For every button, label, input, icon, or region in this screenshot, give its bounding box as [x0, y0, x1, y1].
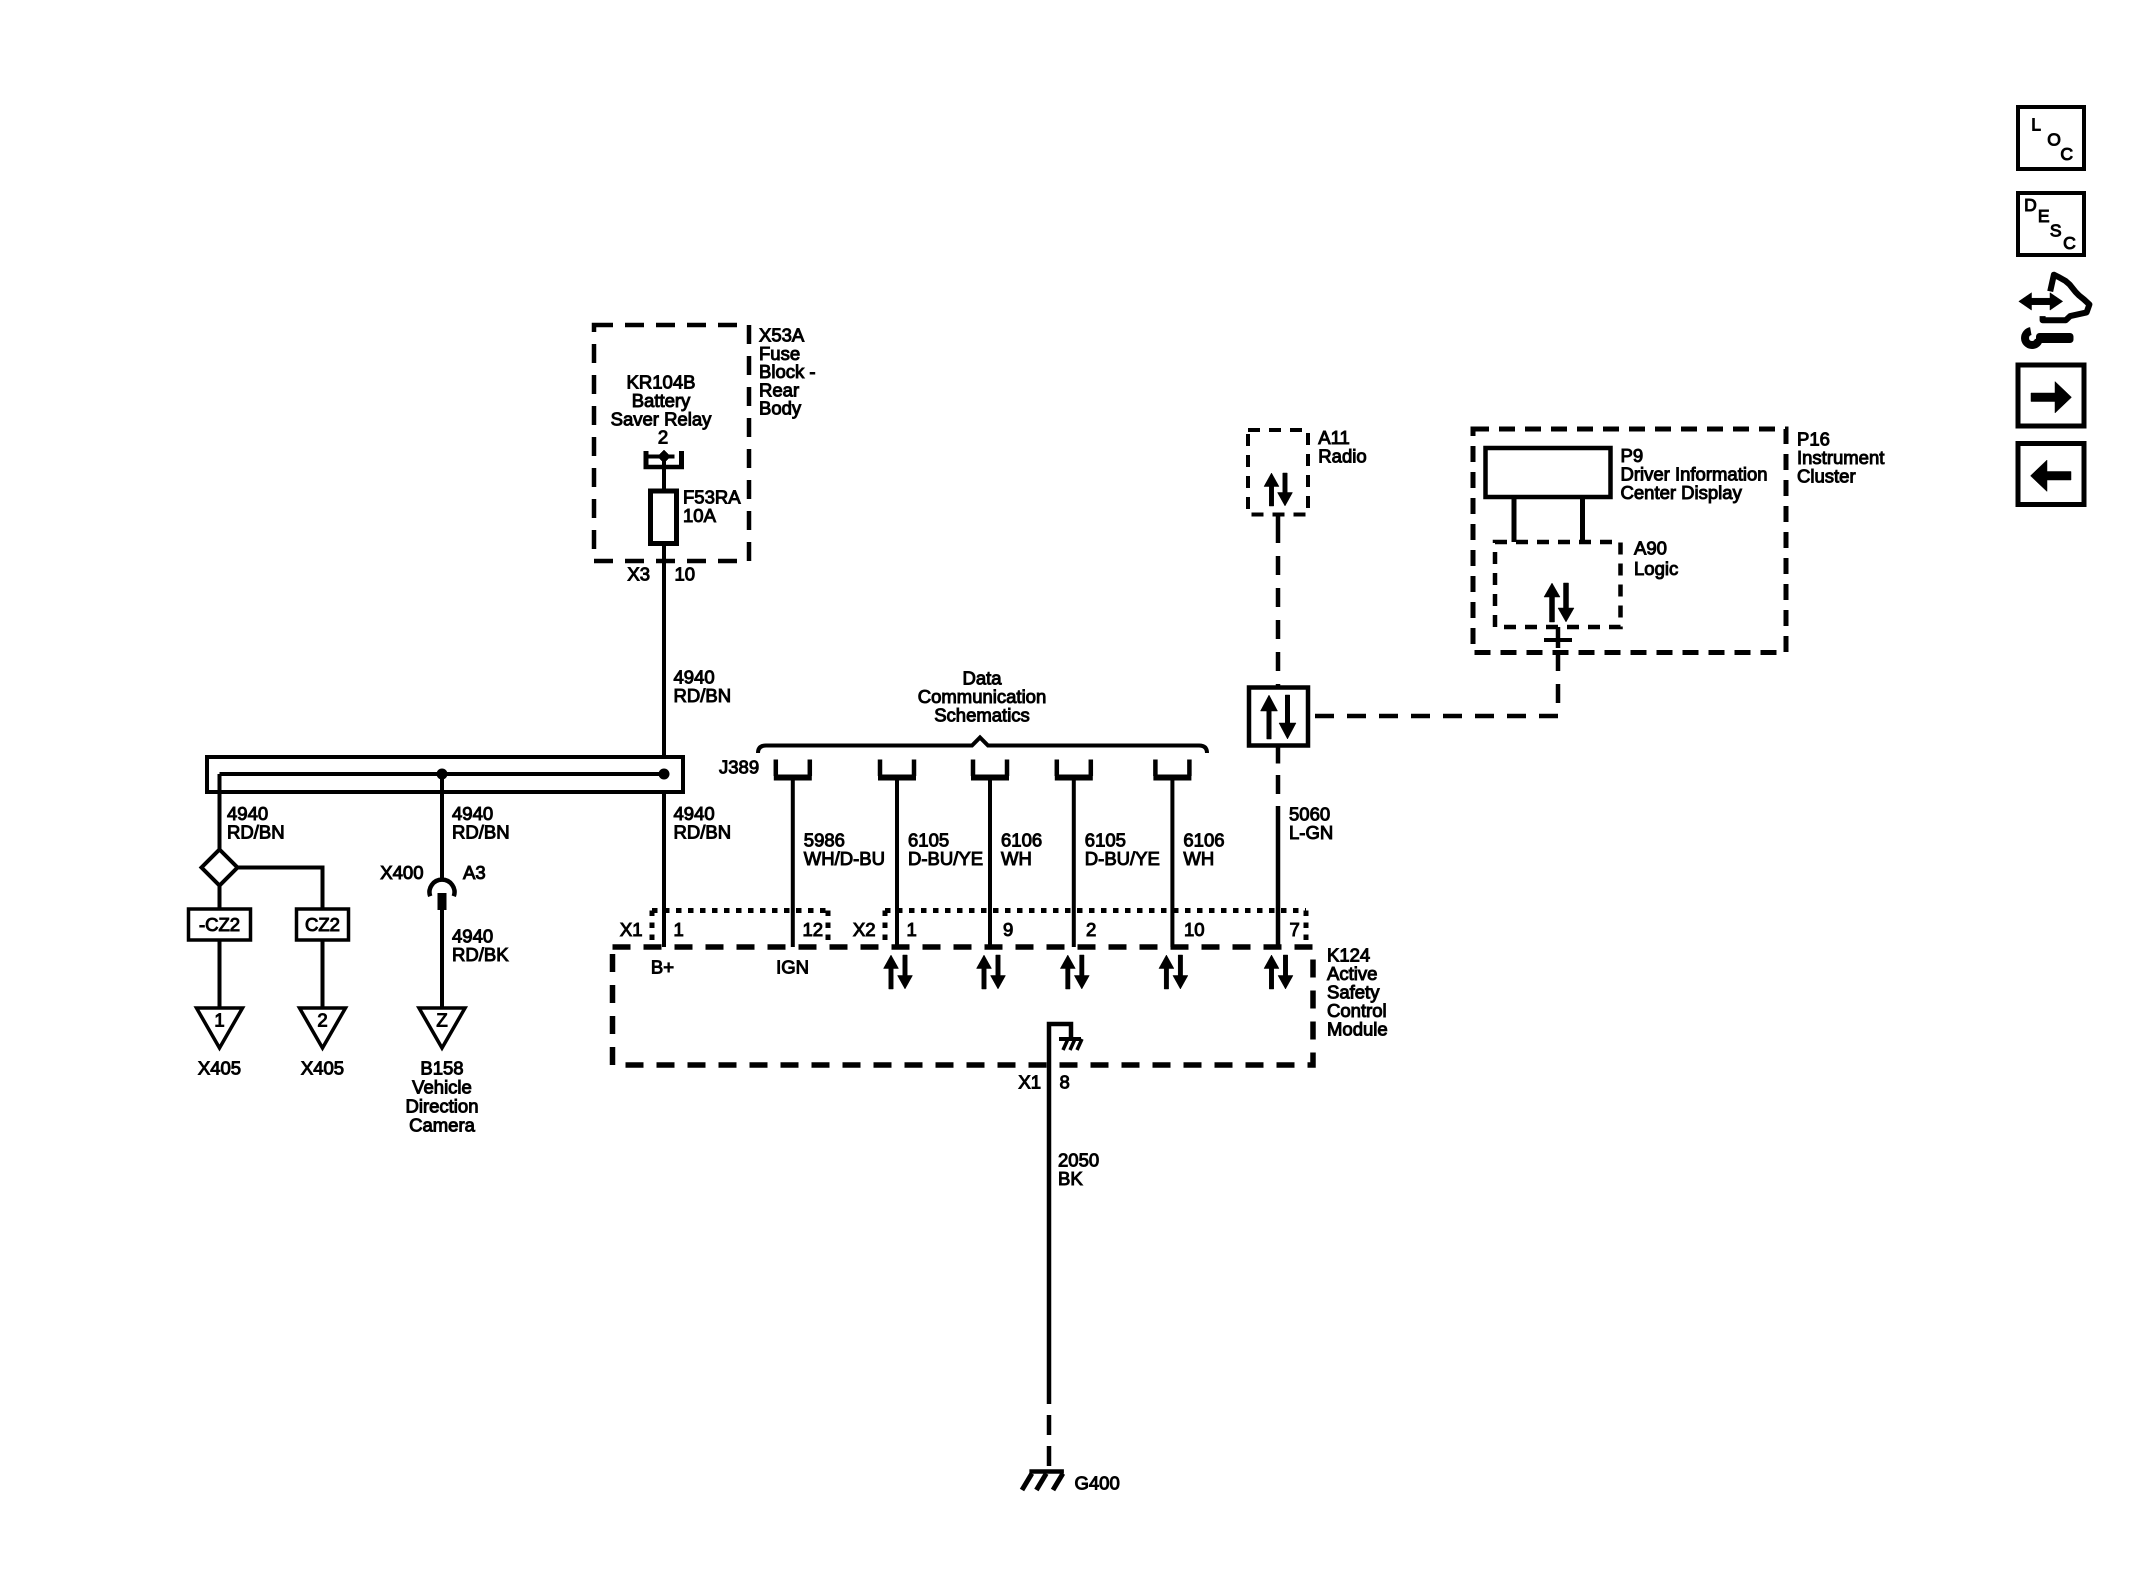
- svg-text:CZ2: CZ2: [305, 914, 340, 935]
- svg-text:WH: WH: [1183, 848, 1214, 869]
- serial data connector 1 symbol: [774, 760, 812, 778]
- svg-text:9: 9: [1003, 919, 1013, 940]
- svg-text:C: C: [2060, 144, 2073, 164]
- logic block A90 dashed box: [1495, 542, 1621, 627]
- splice diamond symbol: [202, 850, 238, 886]
- splice pack J389 body: [207, 757, 683, 792]
- label X53A Fuse Block - Rear Body: [759, 325, 816, 419]
- serial data connector 2 symbol: [878, 760, 916, 778]
- label A90 Logic: [1634, 538, 1678, 580]
- bidirectional data arrows: [1159, 955, 1188, 989]
- wire label 6105 D-BU/YE: [1085, 830, 1160, 870]
- svg-text:WH/D-BU: WH/D-BU: [804, 848, 885, 869]
- wire fuse output down through fuse block edge to splice pack and module pin X1-1: [662, 544, 666, 948]
- wire label 4940 RD/BN (module feed below splice): [674, 803, 732, 843]
- label P16 Instrument Cluster: [1797, 429, 1884, 487]
- bidirectional data arrows: [884, 955, 913, 989]
- svg-text:Z: Z: [436, 1010, 447, 1031]
- wire 6105 D-BU/YE: [1072, 780, 1076, 947]
- label P9 Driver Information Center Display: [1621, 445, 1768, 503]
- svg-text:B158: B158: [420, 1058, 463, 1079]
- svg-text:1: 1: [214, 1010, 224, 1031]
- instrument cluster P16 dashed box: [1473, 429, 1786, 653]
- svg-text:IGN: IGN: [776, 957, 809, 978]
- fuse block X53A dashed outline: [594, 325, 749, 561]
- wire label 5986 WH/D-BU: [804, 830, 885, 870]
- svg-text:Cluster: Cluster: [1797, 466, 1856, 487]
- in-line connector symbol with data arrows: [1249, 688, 1308, 746]
- svg-text:RD/BN: RD/BN: [452, 822, 510, 843]
- svg-text:Center Display: Center Display: [1621, 482, 1743, 503]
- off-page triangle Z: [419, 1008, 465, 1048]
- svg-text:10: 10: [1184, 919, 1205, 940]
- wire 2050 BK module to ground: [1047, 1065, 1052, 1467]
- wire 5986 WH/D-BU: [791, 780, 795, 947]
- connector labels X400 A3: [380, 862, 485, 883]
- svg-text:RD/BN: RD/BN: [674, 685, 732, 706]
- svg-text:X405: X405: [301, 1058, 344, 1079]
- svg-text:L: L: [2031, 114, 2041, 134]
- connector pin labels X1 8: [1018, 1072, 1069, 1093]
- connector pin labels X3 10: [627, 564, 695, 585]
- junction dot at splice for main feed: [659, 769, 670, 780]
- svg-text:O: O: [2047, 130, 2061, 150]
- label KR104B Battery Saver Relay: [611, 372, 713, 430]
- wire splice to connector X400: [440, 774, 444, 879]
- dashed wire A90 to in-line connector: [1308, 652, 1558, 716]
- svg-text:C: C: [2063, 233, 2076, 253]
- svg-text:7: 7: [1290, 919, 1300, 940]
- svg-text:J389: J389: [719, 757, 759, 778]
- bidirectional data arrows: [1264, 955, 1293, 989]
- svg-text:10A: 10A: [683, 505, 717, 526]
- svg-text:1: 1: [907, 919, 917, 940]
- LOC navigation box icon: [2018, 107, 2084, 169]
- svg-text:-CZ2: -CZ2: [199, 914, 240, 935]
- in-line connector -CZ2: [189, 909, 251, 940]
- wire 6106 WH: [1170, 780, 1174, 947]
- svg-text:D-BU/YE: D-BU/YE: [908, 848, 983, 869]
- off-page triangle 1: [197, 1008, 243, 1048]
- wire P9 to A90 right leg: [1580, 497, 1585, 542]
- previous-page left arrow box icon: [2018, 444, 2084, 505]
- wire label 4940 RD/BN (fuse output): [674, 667, 732, 707]
- svg-text:L-GN: L-GN: [1289, 822, 1333, 843]
- connector X2 dotted pin strip: [885, 911, 1306, 942]
- svg-text:WH: WH: [1001, 848, 1032, 869]
- svg-text:B+: B+: [651, 957, 674, 978]
- A90 output stub: [1544, 627, 1572, 648]
- wire CZ2 to triangle 2: [321, 940, 325, 1008]
- svg-text:12: 12: [803, 919, 824, 940]
- module internal ground wire: [1049, 1024, 1082, 1065]
- svg-text:G400: G400: [1075, 1472, 1120, 1493]
- svg-text:RD/BK: RD/BK: [452, 944, 509, 965]
- ground G400 symbol: [1022, 1472, 1064, 1491]
- wire label 4940 RD/BK: [452, 926, 509, 966]
- bidirectional data arrows: [1060, 955, 1089, 989]
- bidirectional arrows inside in-line connector: [1261, 695, 1297, 739]
- wire label 6105 D-BU/YE: [908, 830, 983, 870]
- radio A11 dashed box: [1248, 430, 1308, 515]
- wire label 6106 WH: [1183, 830, 1224, 870]
- serial data connector 3 symbol: [971, 760, 1009, 778]
- wire label 5060 L-GN: [1289, 804, 1333, 844]
- serial data connector 5 symbol: [1153, 760, 1191, 778]
- repair-instructions icon (double arrow, vehicle outline, wrench): [2019, 275, 2090, 345]
- wire connector to K124 pin 7 : 5060 L-GN: [1276, 746, 1281, 948]
- svg-text:Vehicle: Vehicle: [412, 1077, 472, 1098]
- svg-text:1: 1: [674, 919, 684, 940]
- svg-text:X400: X400: [380, 862, 423, 883]
- wire relay to fuse: [662, 457, 666, 494]
- svg-text:Radio: Radio: [1318, 445, 1366, 466]
- wire splice to splice diamond (left branch): [218, 774, 222, 850]
- svg-text:Camera: Camera: [409, 1115, 476, 1136]
- svg-text:E: E: [2038, 206, 2050, 226]
- bidirectional arrows inside A11: [1264, 473, 1293, 506]
- K124 module dashed box: [613, 947, 1314, 1065]
- svg-text:X2: X2: [853, 919, 876, 940]
- svg-text:X405: X405: [198, 1058, 241, 1079]
- splice pack internal bus wire: [220, 772, 665, 776]
- wire -CZ2 to triangle 1: [218, 940, 222, 1008]
- svg-text:RD/BN: RD/BN: [227, 822, 285, 843]
- svg-text:10: 10: [675, 564, 696, 585]
- svg-text:2: 2: [317, 1010, 327, 1031]
- svg-text:RD/BN: RD/BN: [674, 822, 732, 843]
- curly brace over data wires: [758, 738, 1207, 754]
- svg-text:A3: A3: [463, 862, 486, 883]
- connector X1 dotted pin strip: [652, 911, 828, 942]
- wire A11 to in-line connector (dashed): [1276, 515, 1281, 525]
- svg-text:Schematics: Schematics: [934, 705, 1030, 726]
- next-page right arrow box icon: [2018, 365, 2084, 426]
- off-page triangle 2: [300, 1008, 346, 1048]
- svg-text:D-BU/YE: D-BU/YE: [1085, 848, 1160, 869]
- label F53RA 10A: [683, 487, 741, 526]
- relay KR104B contact terminal symbol: [644, 450, 685, 469]
- wire label 4940 RD/BN (camera branch): [452, 803, 510, 843]
- svg-text:X1: X1: [620, 919, 643, 940]
- in-line connector X400 pin A3 symbol: [430, 880, 455, 910]
- svg-text:X3: X3: [627, 564, 650, 585]
- wire label 4940 RD/BN (left branch): [227, 803, 285, 843]
- wire diamond to -CZ2: [218, 886, 222, 910]
- svg-text:Logic: Logic: [1634, 558, 1678, 579]
- wire connector to triangle Z: [440, 910, 444, 1008]
- wire 6105 D-BU/YE: [895, 780, 899, 947]
- wire label 2050 BK: [1058, 1150, 1099, 1190]
- svg-text:2: 2: [658, 427, 668, 448]
- wire P9 to A90 left leg: [1512, 497, 1517, 542]
- DESC navigation box icon: [2018, 193, 2084, 255]
- label A11 Radio: [1318, 427, 1366, 467]
- bidirectional arrows inside A90: [1544, 583, 1574, 622]
- svg-text:A90: A90: [1634, 538, 1667, 559]
- svg-text:X1: X1: [1018, 1072, 1041, 1093]
- label Data Communication Schematics: [918, 668, 1047, 726]
- svg-text:BK: BK: [1058, 1168, 1083, 1189]
- label B158 Vehicle Direction Camera: [406, 1058, 479, 1136]
- wire 6106 WH: [988, 780, 992, 947]
- serial data connector 4 symbol: [1055, 760, 1093, 778]
- svg-text:8: 8: [1060, 1072, 1070, 1093]
- in-line connector CZ2: [297, 909, 349, 940]
- label K124 Active Safety Control Module: [1327, 945, 1388, 1040]
- display P9 box: [1486, 448, 1611, 497]
- svg-text:2: 2: [1086, 919, 1096, 940]
- svg-text:Direction: Direction: [406, 1096, 479, 1117]
- svg-text:D: D: [2024, 195, 2037, 215]
- svg-text:Module: Module: [1327, 1019, 1388, 1040]
- svg-text:Body: Body: [759, 398, 802, 419]
- fuse F53RA 10A: [651, 491, 677, 544]
- wire diamond to CZ2 branch: [238, 868, 323, 910]
- bidirectional data arrows: [977, 955, 1006, 989]
- wire label 6106 WH: [1001, 830, 1042, 870]
- svg-text:S: S: [2050, 220, 2062, 240]
- junction dot at splice for camera branch: [437, 769, 448, 780]
